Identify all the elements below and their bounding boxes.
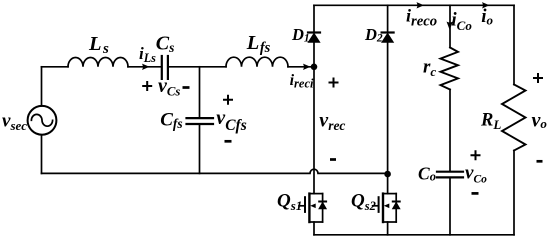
node rectifier return junction (384, 171, 391, 178)
label vo plus (533, 73, 543, 83)
svg-text:Cs: Cs (156, 32, 175, 55)
svg-text:RL: RL (480, 111, 501, 133)
arrow iLs (142, 64, 150, 70)
svg-text:D2: D2 (364, 25, 383, 45)
capacitor Cs (162, 56, 168, 79)
wire D1 to input node (313, 42, 315, 67)
label vCs plus (142, 81, 152, 91)
wire source bottom lead (41, 135, 43, 174)
svg-text:Lfs: Lfs (246, 32, 271, 56)
wire D2 to return node (387, 42, 389, 173)
svg-text:Co: Co (418, 164, 436, 184)
wire D2 branch upper lead (387, 5, 389, 32)
node rectifier input junction (311, 64, 318, 71)
wire right branch top lead (513, 5, 515, 84)
wire return node down to Qs2 drain (387, 174, 389, 194)
diode D2 (382, 33, 394, 43)
label vCfs plus (223, 95, 233, 105)
wire bottom left rail with hop over Qs1 branch (42, 169, 388, 173)
svg-text:iCo: iCo (451, 9, 472, 33)
arrow ireco (417, 2, 425, 8)
wire source to Ls (42, 66, 69, 68)
svg-text:vrec: vrec (319, 110, 345, 134)
svg-text:ireco: ireco (406, 6, 437, 30)
wire D1 branch upper lead (313, 5, 315, 32)
label vrec minus (330, 158, 336, 161)
svg-text:Qs1: Qs1 (277, 190, 302, 213)
transistor Qs2 (373, 194, 400, 222)
wire Co bottom lead (449, 178, 451, 235)
svg-text:vsec: vsec (2, 111, 27, 134)
wire top rail (314, 4, 514, 6)
transistor Qs1 (299, 194, 326, 222)
wire Qs2 source to bottom rail (387, 222, 389, 235)
diode D1 (308, 33, 320, 43)
wire source top lead (41, 67, 43, 106)
wire right branch bottom lead (513, 151, 515, 235)
label vCo minus (472, 192, 479, 195)
wire Cfs top lead (199, 67, 201, 117)
capacitor Co (437, 172, 463, 178)
capacitor Cfs (187, 118, 214, 124)
wire Cs to Lfs (169, 66, 226, 68)
wire Cfs bottom lead (199, 125, 201, 173)
svg-text:iLs: iLs (139, 44, 156, 65)
resistor RL (502, 85, 526, 151)
wire rc to Co (449, 90, 451, 171)
svg-text:Ls: Ls (88, 33, 109, 57)
ac source vsec (28, 106, 57, 135)
wire Lfs to rectifier input node (288, 66, 314, 68)
wire Ls to Cs (128, 66, 161, 68)
arrow ireci (303, 64, 311, 70)
inductor Ls (68, 58, 128, 67)
svg-text:vo: vo (532, 109, 548, 131)
svg-text:vCs: vCs (158, 75, 180, 99)
label vCs minus (183, 86, 190, 89)
svg-text:Qs2: Qs2 (351, 190, 376, 213)
label vCo plus (471, 150, 481, 160)
label vrec plus (329, 78, 339, 88)
svg-text:vCo: vCo (465, 163, 487, 186)
svg-text:io: io (481, 6, 493, 28)
svg-text:rc: rc (423, 57, 436, 80)
arrow iCo down (447, 22, 453, 31)
resistor rc (441, 48, 459, 90)
wire rc branch top lead (449, 5, 451, 47)
arrow io (482, 2, 490, 8)
wire Qs1 source to bottom rail (313, 222, 315, 235)
svg-text:D1: D1 (291, 25, 310, 45)
svg-text:Cfs: Cfs (160, 109, 182, 131)
inductor Lfs (226, 57, 288, 67)
svg-text:ireci: ireci (290, 72, 314, 91)
label vo minus (537, 160, 543, 163)
wire bottom rail (314, 234, 514, 236)
wire input node down to Qs1 drain (313, 67, 315, 194)
label vCfs minus (225, 140, 232, 143)
svg-text:vCfs: vCfs (216, 107, 246, 134)
